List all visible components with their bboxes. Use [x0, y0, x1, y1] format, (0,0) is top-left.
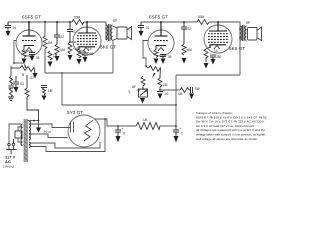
T3 HV wire to V5 plate 2	[30, 134, 67, 138]
svg-text:50M: 50M	[74, 16, 81, 20]
AC plug	[6, 139, 17, 154]
svg-text:6K6 GT: 6K6 GT	[100, 45, 116, 50]
primary left wires	[9, 124, 21, 143]
notes text block	[196, 111, 270, 141]
resistor R5 plate load (x45)	[43, 22, 47, 73]
V4 bypass cap	[210, 55, 216, 59]
input jack ch2	[138, 89, 140, 91]
tube V3 6SF5 envelope	[148, 30, 174, 56]
capacitor + ground at x160	[157, 91, 163, 93]
V4 cathode resistor cluster	[206, 47, 210, 49]
V3 cathode	[156, 46, 166, 50]
svg-text:250: 250	[88, 52, 94, 56]
svg-text:6M: 6M	[178, 92, 183, 96]
V1 heater	[26, 48, 32, 52]
svg-text:½M: ½M	[60, 48, 66, 52]
resistor R14 switch line	[180, 88, 189, 93]
fuse box	[15, 131, 22, 138]
V3 bypass cap + ground	[160, 55, 166, 59]
svg-text:14: 14	[88, 47, 92, 51]
wire bottom loop ch1	[45, 72, 113, 74]
resistor R13 on rail ch2	[197, 20, 209, 25]
ground arrow R7	[68, 55, 73, 61]
V3 grid	[154, 40, 168, 42]
capacitor + resistor bleeder (x44)	[41, 86, 47, 88]
ground arrow C2	[30, 56, 35, 61]
svg-text:2 Prong: 2 Prong	[3, 165, 14, 169]
svg-text:B: B	[22, 73, 24, 77]
filter cap C8	[115, 126, 121, 136]
tube V5 5Y3 envelope	[68, 115, 100, 147]
V3 plate	[155, 22, 168, 36]
output transformer T1 ch1	[106, 24, 113, 41]
svg-text:250: 250	[216, 55, 222, 59]
svg-text:AF: AF	[132, 85, 136, 89]
resistor R16 pot right column	[158, 76, 162, 90]
svg-text:14: 14	[214, 49, 218, 53]
ground arrow C1	[6, 31, 11, 36]
wire V1 grid to volume pot	[14, 41, 24, 64]
tube V1 6SF5 envelope	[16, 30, 42, 56]
V3 cathode resistor + ground	[154, 50, 158, 58]
V5 filament	[84, 120, 93, 141]
resistor R15 (x184 below rail)	[181, 22, 187, 44]
svg-text:5Y3 GT: 5Y3 GT	[67, 110, 83, 115]
resistor R7 (x70)	[68, 42, 72, 54]
wire filter to riser	[160, 125, 176, 127]
svg-text:“L: “L	[128, 90, 131, 94]
V1 grid	[22, 40, 36, 42]
V1 cathode	[24, 46, 34, 50]
node dots rail ch2	[160, 21, 219, 23]
resistor R4 cathode V1	[22, 50, 26, 58]
V4 plate	[209, 22, 227, 31]
V3 heater	[158, 48, 164, 52]
coupling chain x57: cap + resistor + ground	[54, 22, 60, 44]
output transformer T2 ch2	[240, 25, 247, 41]
coupling chain x70: cap + resistor + ground	[67, 22, 73, 42]
wire pot left to tone chain	[11, 68, 20, 76]
svg-text:and voltage all values are oth: and voltage all values are otherwise as …	[196, 137, 258, 141]
potentiometer R11 volume ch2	[146, 66, 161, 77]
svg-text:SW: SW	[195, 87, 200, 91]
wire V3 grid loop	[143, 41, 148, 67]
V4 heater	[214, 46, 220, 50]
resistor tone chain x11 lower	[10, 88, 13, 97]
svg-text:50M: 50M	[198, 15, 205, 19]
svg-text:+: +	[180, 127, 182, 131]
svg-text:1M: 1M	[53, 54, 58, 58]
V2 cathode resistor cluster	[77, 49, 81, 58]
wire T2 bottom down	[239, 40, 241, 75]
ground arrow R6	[55, 56, 60, 62]
ground arrow V1 cathode	[22, 59, 27, 65]
capacitor C12 switch	[189, 87, 193, 93]
resistor R8 with ground (x50)	[48, 51, 52, 60]
svg-text:8: 8	[123, 132, 125, 136]
capacitor C1 with ground	[5, 22, 11, 31]
svg-text:6K6 GT: 6K6 GT	[229, 46, 245, 51]
center tap ground arrow	[38, 121, 40, 128]
V2 grids dashed	[77, 36, 97, 44]
filament winding wires	[30, 142, 100, 148]
V2 cathode bypass cap	[79, 51, 88, 57]
V4 cathode	[210, 45, 226, 48]
T3 HV wire to V5 plate 1	[30, 124, 70, 128]
tube V2 6K6 envelope	[73, 27, 101, 55]
node dots rail ch1	[28, 21, 88, 23]
V2 cathode	[79, 47, 95, 50]
T3 secondary windings	[29, 121, 30, 134]
wiper arrow R11	[152, 73, 156, 78]
svg-text:1M: 1M	[143, 118, 148, 122]
svg-text:1M: 1M	[48, 41, 53, 45]
svg-text:6SF5 GT: 6SF5 GT	[22, 15, 41, 20]
resistor R12 (x143)	[141, 76, 145, 90]
svg-text:SP: SP	[246, 21, 250, 25]
svg-text:60 cy: 60 cy	[44, 130, 52, 134]
V4 grids dashed	[208, 34, 228, 42]
svg-text:2M: 2M	[163, 83, 168, 87]
svg-text:.02: .02	[164, 92, 169, 96]
wire drop to ground bus	[61, 73, 63, 105]
wire B+ rail channel 1	[8, 21, 72, 23]
svg-text:.02: .02	[30, 76, 35, 80]
wire B+ rail channel 2	[141, 21, 197, 23]
svg-text:½M: ½M	[187, 48, 193, 52]
wire rail ch2 right with corner down	[209, 22, 240, 26]
svg-text:.01: .01	[12, 26, 17, 30]
filter resistor R20	[136, 123, 160, 130]
svg-text:.05: .05	[167, 55, 172, 59]
filter cap C9	[173, 126, 179, 136]
speaker ch2	[248, 27, 262, 41]
chassis ground x11	[8, 97, 14, 100]
capacitor C2 cathode bypass	[24, 51, 35, 56]
V1 plate	[23, 22, 36, 36]
svg-text:AC: AC	[5, 159, 11, 164]
wire to switch	[160, 89, 180, 91]
V2 heater	[83, 48, 89, 52]
wire B+ riser x176	[175, 75, 177, 126]
svg-text:.01: .01	[20, 82, 25, 86]
resistor R3 on rail ch1	[72, 20, 84, 25]
wiper arrow R1	[24, 63, 27, 68]
tube V4 6K6 envelope	[204, 25, 232, 53]
wire rail ch1 right	[84, 22, 106, 25]
svg-text:+: +	[122, 127, 124, 131]
svg-text:SP: SP	[113, 19, 117, 23]
power transformer T3 core	[24, 119, 27, 162]
ground arrow pot right	[33, 73, 38, 79]
speaker ch1	[113, 26, 132, 41]
T3 center tap wire	[27, 120, 38, 122]
cap chain x16 with arrow	[13, 76, 19, 87]
capacitor C10 rail ch2 left end	[138, 22, 144, 31]
V2 plate	[78, 22, 96, 33]
wire bottom loop ch2	[176, 74, 240, 76]
node dots T2	[239, 28, 241, 39]
svg-text:.02: .02	[187, 27, 192, 31]
svg-text:.02: .02	[60, 35, 65, 39]
resistor tone chain x11	[10, 76, 13, 85]
V5 plates	[71, 122, 74, 133]
column x27 input jack chain	[25, 75, 39, 121]
potentiometer R1 volume ch1	[20, 66, 35, 75]
resistor R6 (x57)	[55, 44, 59, 55]
svg-text:6SF5 GT: 6SF5 GT	[149, 15, 168, 20]
svg-text:.01: .01	[145, 26, 150, 30]
svg-text:.05: .05	[35, 56, 40, 60]
B+ wire from V5 to filter	[95, 119, 136, 126]
T3 primary winding	[21, 124, 23, 146]
wire T1 bottom to B+ bus ch1	[112, 40, 115, 73]
svg-text:1M: 1M	[48, 89, 53, 93]
node grid V2	[69, 41, 71, 43]
capacitor tone chain x11	[9, 86, 14, 88]
ground bus wire	[62, 104, 176, 106]
